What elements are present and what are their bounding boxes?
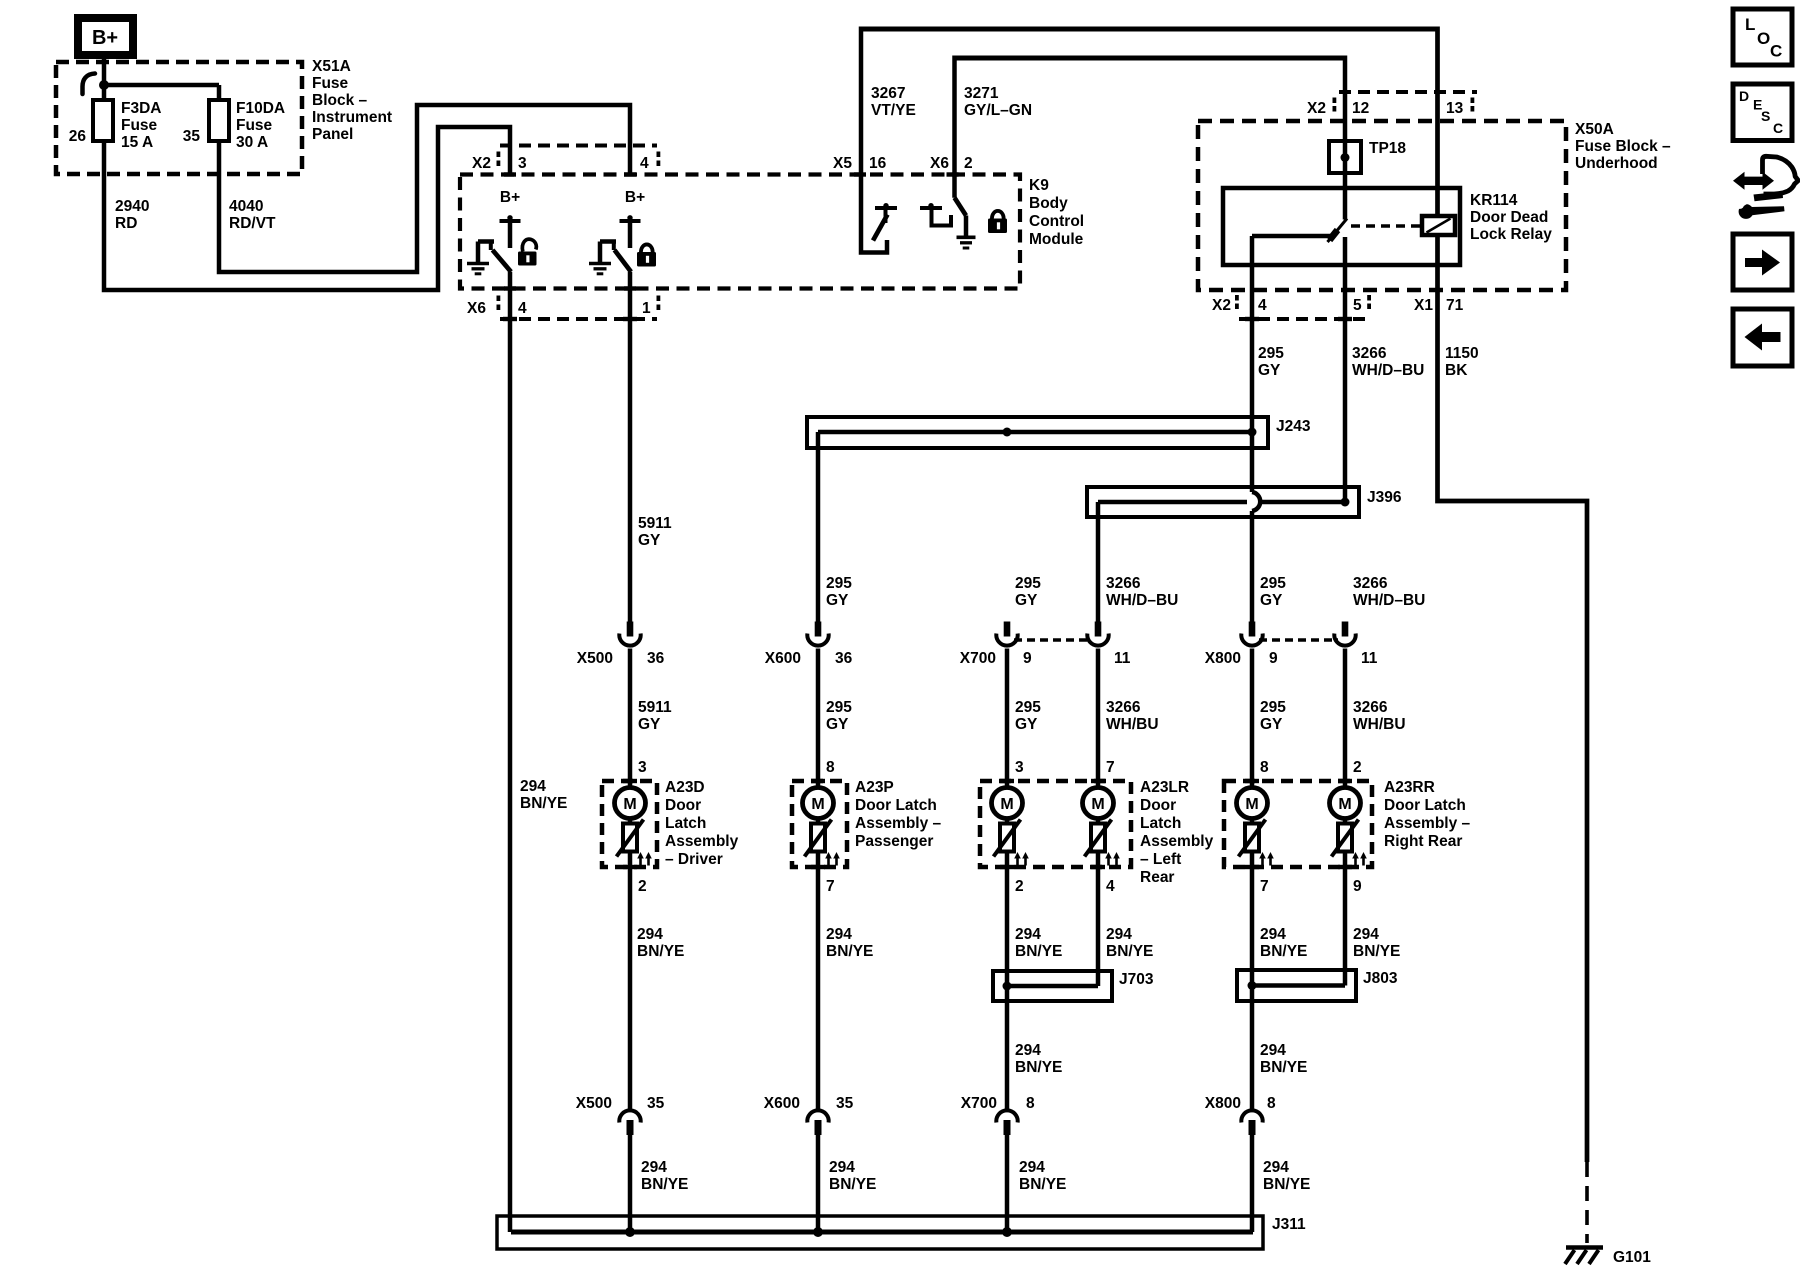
svg-text:Door Dead: Door Dead [1470, 209, 1548, 226]
svg-text:Door: Door [665, 797, 701, 814]
svg-text:1: 1 [642, 300, 651, 317]
svg-text:BN/YE: BN/YE [520, 795, 567, 812]
svg-text:M: M [1000, 796, 1013, 813]
svg-text:295: 295 [1260, 699, 1286, 716]
svg-text:Control: Control [1029, 213, 1084, 230]
svg-text:WH/D–BU: WH/D–BU [1353, 592, 1425, 609]
svg-text:294: 294 [641, 1159, 667, 1176]
svg-text:294: 294 [826, 926, 852, 943]
svg-text:M: M [1245, 796, 1258, 813]
svg-text:BN/YE: BN/YE [1015, 1059, 1062, 1076]
svg-text:2940: 2940 [115, 198, 149, 215]
svg-text:BN/YE: BN/YE [1019, 1176, 1066, 1193]
svg-text:4040: 4040 [229, 198, 263, 215]
svg-text:Fuse Block –: Fuse Block – [1575, 138, 1671, 155]
svg-text:BN/YE: BN/YE [829, 1176, 876, 1193]
svg-text:A23LR: A23LR [1140, 779, 1189, 796]
svg-text:3: 3 [638, 759, 647, 776]
svg-text:X2: X2 [472, 155, 491, 172]
svg-text:294: 294 [1353, 926, 1379, 943]
svg-text:294: 294 [829, 1159, 855, 1176]
svg-text:VT/YE: VT/YE [871, 102, 916, 119]
svg-text:X5: X5 [833, 155, 852, 172]
svg-text:J396: J396 [1367, 489, 1402, 506]
svg-text:GY: GY [1260, 592, 1283, 609]
svg-text:15 A: 15 A [121, 134, 153, 151]
svg-text:294: 294 [520, 778, 546, 795]
svg-text:Lock Relay: Lock Relay [1470, 226, 1552, 243]
svg-text:7: 7 [826, 878, 835, 895]
svg-text:BN/YE: BN/YE [1015, 943, 1062, 960]
svg-text:11: 11 [1361, 650, 1378, 667]
svg-text:BN/YE: BN/YE [1106, 943, 1153, 960]
svg-text:295: 295 [826, 575, 852, 592]
svg-text:1150: 1150 [1445, 345, 1479, 362]
svg-text:X6: X6 [467, 300, 486, 317]
svg-text:X500: X500 [576, 1095, 612, 1112]
svg-text:35: 35 [836, 1095, 854, 1112]
svg-text:M: M [623, 796, 636, 813]
svg-text:WH/D–BU: WH/D–BU [1352, 362, 1424, 379]
svg-text:11: 11 [1114, 650, 1131, 667]
svg-text:4: 4 [1106, 878, 1115, 895]
svg-text:35: 35 [183, 128, 201, 145]
svg-text:Body: Body [1029, 195, 1068, 212]
svg-text:Right Rear: Right Rear [1384, 833, 1462, 850]
svg-text:M: M [1338, 796, 1351, 813]
svg-text:GY: GY [826, 716, 849, 733]
svg-text:X50A: X50A [1575, 121, 1614, 138]
svg-text:TP18: TP18 [1369, 140, 1406, 157]
svg-text:Assembly –: Assembly – [1384, 815, 1471, 832]
svg-text:294: 294 [1019, 1159, 1045, 1176]
svg-text:X2: X2 [1212, 297, 1231, 314]
svg-text:X1: X1 [1414, 297, 1433, 314]
svg-text:GY/L–GN: GY/L–GN [964, 102, 1032, 119]
svg-text:KR114: KR114 [1470, 192, 1518, 209]
svg-text:K9: K9 [1029, 177, 1049, 194]
svg-text:36: 36 [647, 650, 665, 667]
svg-text:C: C [1773, 120, 1783, 136]
svg-text:Rear: Rear [1140, 869, 1174, 886]
svg-text:Panel: Panel [312, 126, 353, 143]
svg-text:A23RR: A23RR [1384, 779, 1435, 796]
svg-text:WH/D–BU: WH/D–BU [1106, 592, 1178, 609]
svg-text:2: 2 [964, 155, 973, 172]
svg-text:294: 294 [637, 926, 663, 943]
svg-text:30 A: 30 A [236, 134, 268, 151]
svg-text:F10DA: F10DA [236, 100, 285, 117]
svg-text:GY: GY [1015, 716, 1038, 733]
svg-text:7: 7 [1260, 878, 1269, 895]
svg-text:X700: X700 [960, 650, 996, 667]
svg-text:3266: 3266 [1353, 699, 1388, 716]
svg-text:– Driver: – Driver [665, 851, 723, 868]
svg-text:13: 13 [1446, 100, 1464, 117]
svg-text:Fuse: Fuse [312, 75, 349, 92]
svg-text:Fuse: Fuse [121, 117, 158, 134]
svg-text:BN/YE: BN/YE [1263, 1176, 1310, 1193]
svg-text:294: 294 [1015, 1042, 1041, 1059]
svg-text:295: 295 [1258, 345, 1284, 362]
svg-text:GY: GY [638, 716, 661, 733]
svg-text:26: 26 [69, 128, 87, 145]
svg-text:9: 9 [1269, 650, 1278, 667]
svg-text:2: 2 [638, 878, 647, 895]
svg-text:F3DA: F3DA [121, 100, 161, 117]
svg-text:WH/BU: WH/BU [1106, 716, 1159, 733]
svg-text:295: 295 [1260, 575, 1286, 592]
svg-text:5911: 5911 [638, 699, 672, 716]
svg-text:L: L [1745, 15, 1755, 34]
svg-text:8: 8 [826, 759, 835, 776]
svg-text:3266: 3266 [1353, 575, 1388, 592]
svg-text:GY: GY [1260, 716, 1283, 733]
svg-text:3266: 3266 [1106, 575, 1141, 592]
svg-text:BN/YE: BN/YE [1260, 1059, 1307, 1076]
svg-text:295: 295 [1015, 699, 1041, 716]
svg-text:Instrument: Instrument [312, 109, 392, 126]
svg-text:A23P: A23P [855, 779, 894, 796]
svg-text:J311: J311 [1272, 1216, 1306, 1233]
svg-text:X2: X2 [1307, 100, 1326, 117]
svg-text:294: 294 [1263, 1159, 1289, 1176]
svg-text:GY: GY [826, 592, 849, 609]
svg-text:9: 9 [1023, 650, 1032, 667]
svg-text:BN/YE: BN/YE [641, 1176, 688, 1193]
svg-text:295: 295 [1015, 575, 1041, 592]
svg-text:S: S [1761, 108, 1770, 124]
svg-text:X800: X800 [1205, 1095, 1241, 1112]
svg-text:J703: J703 [1119, 971, 1154, 988]
svg-text:2: 2 [1015, 878, 1024, 895]
svg-text:Underhood: Underhood [1575, 155, 1658, 172]
svg-text:B+: B+ [500, 189, 520, 206]
svg-text:3271: 3271 [964, 85, 999, 102]
svg-text:Assembly –: Assembly – [855, 815, 942, 832]
svg-text:BK: BK [1445, 362, 1468, 379]
svg-text:J803: J803 [1363, 970, 1398, 987]
svg-text:7: 7 [1106, 759, 1115, 776]
svg-text:36: 36 [835, 650, 853, 667]
svg-text:D: D [1739, 88, 1749, 104]
svg-text:3: 3 [518, 155, 527, 172]
svg-text:295: 295 [826, 699, 852, 716]
svg-text:9: 9 [1353, 878, 1362, 895]
svg-text:J243: J243 [1276, 418, 1311, 435]
svg-text:4: 4 [1258, 297, 1267, 314]
svg-text:Module: Module [1029, 231, 1084, 248]
svg-text:– Left: – Left [1140, 851, 1181, 868]
svg-text:Fuse: Fuse [236, 117, 273, 134]
svg-text:X51A: X51A [312, 58, 351, 75]
svg-text:3: 3 [1015, 759, 1024, 776]
svg-text:71: 71 [1446, 297, 1464, 314]
svg-text:BN/YE: BN/YE [1260, 943, 1307, 960]
svg-text:3266: 3266 [1352, 345, 1387, 362]
svg-text:Assembly: Assembly [665, 833, 739, 850]
svg-text:294: 294 [1260, 926, 1286, 943]
svg-text:5911: 5911 [638, 515, 672, 532]
svg-text:X700: X700 [961, 1095, 997, 1112]
svg-text:RD: RD [115, 215, 137, 232]
svg-text:Door: Door [1140, 797, 1176, 814]
svg-text:B+: B+ [92, 27, 118, 49]
svg-text:Door Latch: Door Latch [1384, 797, 1466, 814]
svg-text:16: 16 [869, 155, 887, 172]
svg-text:GY: GY [1015, 592, 1038, 609]
svg-text:294: 294 [1015, 926, 1041, 943]
svg-text:WH/BU: WH/BU [1353, 716, 1406, 733]
svg-text:RD/VT: RD/VT [229, 215, 276, 232]
svg-text:294: 294 [1260, 1042, 1286, 1059]
svg-text:M: M [811, 796, 824, 813]
svg-text:X800: X800 [1205, 650, 1241, 667]
svg-text:X600: X600 [764, 1095, 800, 1112]
svg-text:BN/YE: BN/YE [1353, 943, 1400, 960]
svg-text:GY: GY [1258, 362, 1281, 379]
svg-text:35: 35 [647, 1095, 665, 1112]
svg-text:Assembly: Assembly [1140, 833, 1214, 850]
svg-text:3267: 3267 [871, 85, 905, 102]
svg-text:4: 4 [640, 155, 649, 172]
svg-text:GY: GY [638, 532, 661, 549]
svg-text:C: C [1770, 42, 1782, 61]
svg-text:X600: X600 [765, 650, 801, 667]
svg-text:8: 8 [1267, 1095, 1276, 1112]
svg-text:Door Latch: Door Latch [855, 797, 937, 814]
svg-text:5: 5 [1353, 297, 1362, 314]
svg-text:X6: X6 [930, 155, 949, 172]
svg-text:Latch: Latch [665, 815, 706, 832]
svg-text:12: 12 [1352, 100, 1369, 117]
svg-text:M: M [1091, 796, 1104, 813]
svg-text:G101: G101 [1613, 1249, 1651, 1266]
svg-text:BN/YE: BN/YE [637, 943, 684, 960]
svg-text:8: 8 [1026, 1095, 1035, 1112]
svg-text:A23D: A23D [665, 779, 705, 796]
svg-text:4: 4 [518, 300, 527, 317]
svg-text:294: 294 [1106, 926, 1132, 943]
svg-text:O: O [1757, 29, 1770, 48]
svg-text:2: 2 [1353, 759, 1362, 776]
svg-text:X500: X500 [577, 650, 613, 667]
svg-text:B+: B+ [625, 189, 645, 206]
svg-text:3266: 3266 [1106, 699, 1141, 716]
svg-text:8: 8 [1260, 759, 1269, 776]
svg-text:BN/YE: BN/YE [826, 943, 873, 960]
svg-text:Passenger: Passenger [855, 833, 933, 850]
svg-text:Latch: Latch [1140, 815, 1181, 832]
svg-text:Block –: Block – [312, 92, 368, 109]
